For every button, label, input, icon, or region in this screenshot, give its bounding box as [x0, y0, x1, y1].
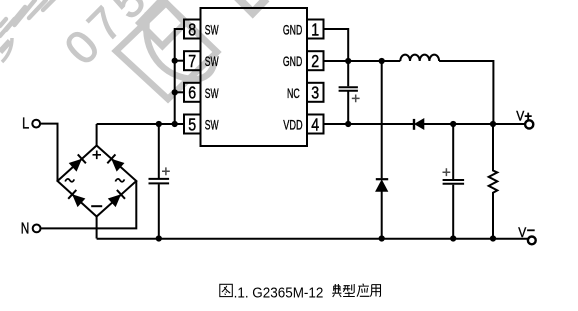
- terminal V- circle: [528, 237, 536, 245]
- pin 5 box: [184, 115, 201, 134]
- svg-text:.1. G2365M-12: .1. G2365M-12: [234, 284, 324, 301]
- wire pin2 line: [324, 60, 401, 62]
- IC U1 G2365M-12 body: [201, 8, 308, 146]
- watermark hook arc: [146, 13, 214, 79]
- junction C2 top: [345, 58, 351, 64]
- watermark diamond small: [140, 0, 186, 46]
- wire inductor to right: [439, 61, 493, 124]
- terminal N circle: [33, 225, 41, 233]
- diode D1 cathode bar: [376, 178, 388, 180]
- caption char yong: [370, 285, 380, 297]
- pin 3 box: [307, 83, 324, 102]
- svg-text:4: 4: [311, 114, 319, 134]
- caption char dian: [332, 284, 341, 297]
- junction D1 bottom: [379, 235, 385, 241]
- bridge minus mark: [91, 205, 102, 207]
- caption: [220, 284, 381, 302]
- wire SW bus: [175, 29, 184, 124]
- junction C1 top: [156, 121, 162, 127]
- svg-text:V: V: [516, 108, 525, 124]
- terminal V+ circle: [525, 120, 533, 128]
- bridge plus mark: [93, 151, 102, 160]
- pin 2 box: [307, 51, 324, 70]
- capacitor C1 plates: [149, 179, 170, 184]
- junction R1 bottom: [490, 235, 496, 241]
- svg-text:SW: SW: [205, 117, 219, 133]
- wire bridge bottom drop: [96, 217, 98, 239]
- wire pin4 line: [324, 123, 414, 125]
- wire diode D1 branch: [381, 61, 383, 239]
- wire pin7 stub: [175, 60, 184, 62]
- diode D2 triangle: [415, 119, 424, 129]
- wire pin6 stub: [175, 91, 184, 93]
- diode D1 triangle: [376, 180, 388, 191]
- capacitor C1 leads: [158, 124, 160, 178]
- wire L input: [40, 124, 57, 181]
- svg-text:NC: NC: [287, 85, 300, 101]
- caption char xing: [343, 284, 355, 297]
- C2 plus mark: [352, 95, 360, 103]
- junction bus-pin7: [172, 58, 178, 64]
- terminal L circle: [32, 120, 40, 128]
- svg-text:1: 1: [311, 19, 319, 39]
- C3 plus mark: [443, 168, 451, 176]
- junction C3 top: [450, 121, 456, 127]
- svg-text:L: L: [22, 116, 30, 133]
- pin 4 box: [307, 115, 324, 134]
- watermark char strokes top-left: [0, 0, 55, 36]
- pin 8 box: [184, 20, 201, 39]
- junction C2 bottom: [345, 121, 351, 127]
- bridge tilde left: [65, 179, 74, 182]
- junction R1 top: [490, 121, 496, 127]
- capacitor C2 leads: [347, 61, 349, 124]
- svg-text:2: 2: [311, 51, 319, 71]
- svg-text:V: V: [518, 224, 527, 240]
- capacitor C3 leads: [452, 124, 454, 239]
- bridge diodes: [68, 119, 424, 207]
- svg-text:VDD: VDD: [283, 117, 302, 133]
- pin 7 box: [184, 51, 201, 70]
- bridge diode top-right: [107, 154, 124, 171]
- junction bus-pin5: [172, 121, 178, 127]
- svg-text:SW: SW: [205, 22, 219, 38]
- caption char tu: [220, 284, 233, 296]
- bridge diode bottom-right: [108, 190, 125, 207]
- svg-text:GND: GND: [283, 22, 302, 38]
- bridge diode bottom-left: [68, 190, 85, 207]
- watermark swoosh arcs: [2, 38, 12, 62]
- bridge diode top-left: [69, 154, 86, 171]
- capacitor C2 plates: [339, 87, 358, 91]
- watermark chevron: [232, 0, 267, 13]
- diode D2 cathode bar: [413, 119, 415, 130]
- junction D1 branch top: [379, 58, 385, 64]
- watermark: [0, 0, 267, 99]
- svg-text:GND: GND: [283, 53, 302, 69]
- bridge markings: [65, 95, 450, 207]
- svg-text:6: 6: [188, 83, 196, 103]
- pin 1 box: [307, 20, 324, 39]
- wire D2 to V+: [424, 123, 526, 125]
- junction C1 bottom: [156, 235, 162, 241]
- wire bridge top riser: [96, 124, 98, 146]
- wire pin1: [324, 29, 349, 61]
- wire bottom rail: [97, 238, 528, 240]
- junction bus-pin6: [172, 89, 178, 95]
- wire pin5 line: [97, 123, 184, 125]
- svg-text:SW: SW: [205, 85, 219, 101]
- capacitor C3 plates: [443, 180, 465, 184]
- pin 6 box: [184, 83, 201, 102]
- svg-text:SW: SW: [205, 53, 219, 69]
- caption char ying: [357, 284, 370, 297]
- watermark diamond large: [116, 3, 217, 99]
- svg-text:5: 5: [188, 114, 196, 134]
- svg-text:7: 7: [188, 51, 196, 71]
- labels: [188, 19, 319, 134]
- C1 plus mark: [162, 167, 170, 175]
- bridge tilde right: [115, 179, 124, 182]
- resistor R1: [489, 124, 498, 239]
- junction C3 bottom: [450, 235, 456, 241]
- svg-text:8: 8: [188, 19, 196, 39]
- bridge rectifier BR1 diamond: [58, 146, 137, 217]
- inductor L1: [400, 55, 439, 61]
- svg-text:3: 3: [311, 83, 319, 103]
- svg-text:N: N: [21, 221, 30, 238]
- wire N input: [41, 181, 137, 228]
